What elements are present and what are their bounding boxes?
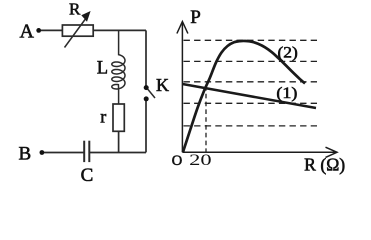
svg-text:20: 20 xyxy=(189,152,212,169)
svg-text:r: r xyxy=(100,107,106,127)
svg-text:R (Ω): R (Ω) xyxy=(304,155,345,175)
svg-text:B: B xyxy=(19,144,32,165)
svg-text:(2): (2) xyxy=(278,44,298,61)
svg-text:P: P xyxy=(190,7,201,28)
svg-text:O: O xyxy=(172,153,182,169)
svg-text:R: R xyxy=(69,0,81,19)
svg-text:(1): (1) xyxy=(276,85,297,102)
svg-text:C: C xyxy=(81,165,94,186)
svg-text:A: A xyxy=(20,21,35,43)
svg-text:K: K xyxy=(156,75,169,95)
svg-text:L: L xyxy=(97,59,108,79)
